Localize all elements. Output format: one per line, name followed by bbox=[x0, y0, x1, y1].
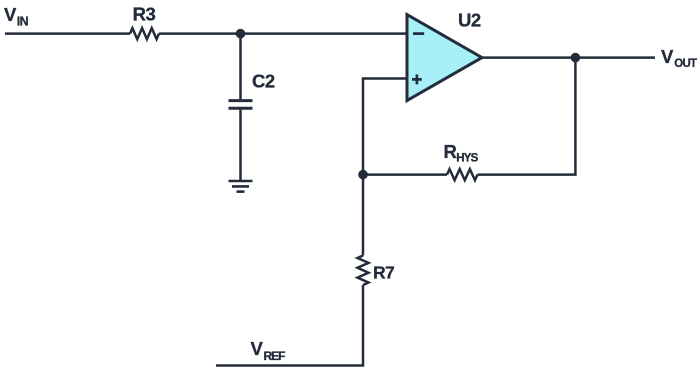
resistor RHYS bbox=[447, 169, 478, 180]
svg-text:REF: REF bbox=[264, 349, 286, 363]
svg-text:U2: U2 bbox=[458, 9, 481, 30]
svg-text:R: R bbox=[444, 141, 457, 162]
svg-text:V: V bbox=[4, 4, 17, 25]
resistor R7 bbox=[358, 256, 369, 286]
svg-text:V: V bbox=[661, 46, 674, 67]
net label VIN bbox=[4, 4, 29, 28]
junction node B (feedback / R7 / U2+) bbox=[358, 170, 368, 180]
wire C2 to ground bbox=[239, 110, 242, 181]
junction node A (R3 / C2 / U2-) bbox=[236, 29, 246, 39]
wire node B to U2 non-inverting input bbox=[363, 79, 407, 175]
svg-text:R3: R3 bbox=[133, 4, 156, 25]
svg-text:C2: C2 bbox=[252, 71, 275, 92]
wire VIN to R3 bbox=[5, 32, 130, 35]
svg-text:HYS: HYS bbox=[456, 152, 478, 164]
ground bbox=[229, 181, 253, 192]
wire RHYS to node B bbox=[363, 173, 447, 176]
resistor R3 bbox=[130, 28, 159, 39]
net label VOUT bbox=[661, 46, 697, 70]
svg-text:V: V bbox=[251, 338, 264, 359]
wire node A to C2 bbox=[239, 34, 242, 100]
net label VREF bbox=[251, 338, 286, 363]
wire R7 to VREF bbox=[216, 285, 363, 366]
wire R3 to U2 inverting input bbox=[159, 32, 407, 35]
capacitor C2 bbox=[229, 101, 253, 109]
wire feedback horizontal right of RHYS bbox=[478, 173, 577, 176]
label RHYS bbox=[444, 141, 479, 164]
svg-text:R7: R7 bbox=[373, 263, 394, 283]
junction node VOUT / feedback bbox=[571, 53, 581, 63]
wire U2 output to VOUT bbox=[482, 56, 655, 59]
svg-text:IN: IN bbox=[17, 14, 29, 28]
op-amp U2 bbox=[407, 15, 482, 101]
wire node B to R7 bbox=[362, 175, 365, 256]
svg-text:OUT: OUT bbox=[674, 58, 697, 70]
wire feedback vertical from output node bbox=[574, 58, 577, 175]
